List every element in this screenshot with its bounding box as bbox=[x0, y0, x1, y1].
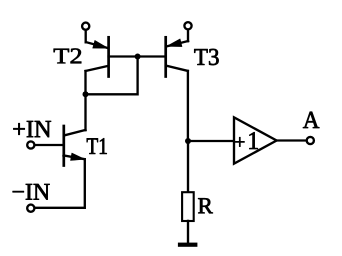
wire node D to resistor R bbox=[187, 141, 189, 192]
transistor T2 bbox=[86, 37, 109, 76]
wire resistor to ground bbox=[187, 221, 189, 243]
label T2 bbox=[54, 49, 81, 64]
terminal circle V+ right bbox=[184, 22, 191, 29]
wire +IN to T1 base bbox=[35, 144, 63, 146]
terminal circle V+ left bbox=[82, 23, 89, 30]
wire T2 collector to node C bbox=[84, 71, 86, 94]
label A bbox=[303, 112, 319, 128]
label +1 bbox=[235, 132, 257, 149]
ground bbox=[178, 243, 198, 247]
wire T2 base to node B bbox=[109, 55, 138, 57]
node B junction dot bbox=[135, 54, 141, 60]
label T3 bbox=[194, 49, 218, 65]
node D junction dot bbox=[185, 138, 191, 144]
wire T1 emitter to -IN bbox=[35, 159, 85, 208]
op-amp buffer U1 bbox=[234, 117, 277, 163]
wire buffer output to terminal A bbox=[277, 139, 306, 141]
terminal circle -IN bbox=[27, 205, 34, 212]
wire T3 collector to node D bbox=[187, 71, 189, 141]
wire node D to buffer input bbox=[188, 140, 233, 142]
label -IN bbox=[13, 184, 50, 200]
wire V+ left to T2 emitter bbox=[85, 30, 87, 42]
terminal circle +IN bbox=[27, 141, 34, 148]
transistor T1 bbox=[64, 126, 86, 166]
wire node C to T1 collector bbox=[84, 94, 86, 130]
transistor T3 bbox=[166, 37, 188, 76]
terminal circle A bbox=[307, 137, 314, 144]
label T1 bbox=[87, 138, 107, 154]
wire node C to node B feedback bbox=[86, 57, 138, 95]
label R bbox=[198, 198, 213, 213]
node C junction dot bbox=[83, 91, 89, 97]
wire node B to T3 base bbox=[138, 55, 166, 57]
resistor R bbox=[182, 192, 194, 221]
wire V+ right to T3 emitter bbox=[187, 30, 189, 41]
label +IN bbox=[13, 121, 51, 137]
